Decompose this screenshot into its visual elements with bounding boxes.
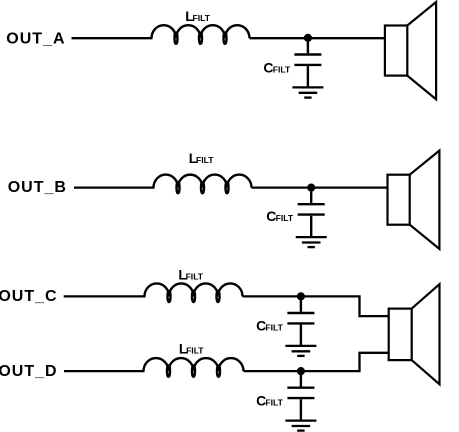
wire junction A to speaker A [308, 37, 385, 39]
inductor L_FILT (D) [144, 358, 244, 377]
wire L_FILT (C) to junction C [243, 295, 301, 297]
svg-text:CFILT: CFILT [256, 392, 284, 408]
inductor L_FILT (B) [154, 175, 252, 194]
ground (B) [296, 237, 327, 247]
svg-text:OUT_C: OUT_C [0, 288, 58, 305]
inductor L_FILT (A) [152, 25, 250, 44]
svg-text:OUT_D: OUT_D [0, 363, 58, 380]
svg-text:LFILT: LFILT [178, 267, 203, 283]
ground (D) [285, 421, 316, 431]
speaker SPK_CD [389, 284, 440, 384]
svg-text:OUT_A: OUT_A [6, 31, 65, 48]
capacitor C_FILT (C) [287, 296, 314, 346]
speaker SPK_A [385, 2, 436, 99]
capacitor C_FILT (B) [298, 188, 325, 238]
wire L_FILT (B) to junction B [252, 186, 312, 188]
wire OUT_D to L_FILT (D) [64, 370, 145, 372]
wire junction D to speaker CD bottom terminal [301, 353, 389, 371]
ground (A) [292, 87, 323, 97]
svg-text:LFILT: LFILT [189, 150, 214, 166]
junction dot A [304, 34, 312, 42]
svg-text:LFILT: LFILT [179, 341, 204, 357]
junction dot C [297, 292, 305, 300]
svg-text:CFILT: CFILT [266, 208, 294, 224]
wire L_FILT (A) to junction A [250, 37, 308, 39]
speaker SPK_B [388, 151, 440, 249]
wire OUT_C to L_FILT (C) [64, 295, 146, 297]
svg-text:CFILT: CFILT [263, 60, 291, 76]
svg-text:LFILT: LFILT [185, 8, 210, 24]
inductor L_FILT (C) [145, 283, 243, 302]
junction dot B [307, 184, 315, 192]
wire junction C to speaker CD top terminal [301, 296, 389, 316]
ground (C) [285, 346, 316, 356]
wire OUT_A to L_FILT (A) [72, 37, 153, 39]
svg-text:OUT_B: OUT_B [8, 179, 67, 196]
wire L_FILT (D) to junction D [244, 370, 301, 372]
wire junction B to speaker B [311, 186, 387, 188]
capacitor C_FILT (A) [294, 38, 321, 88]
wire OUT_B to L_FILT (B) [74, 186, 155, 188]
junction dot D [297, 367, 305, 375]
capacitor C_FILT (D) [287, 371, 314, 421]
svg-text:CFILT: CFILT [256, 317, 284, 333]
